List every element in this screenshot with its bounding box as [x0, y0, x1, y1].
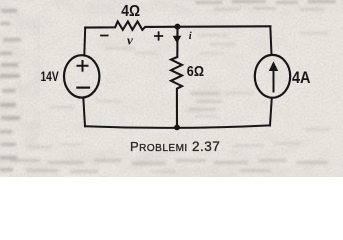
svg-text:v: v: [127, 32, 133, 47]
svg-text:14V: 14V: [41, 68, 60, 84]
svg-text:6Ω: 6Ω: [187, 64, 205, 80]
svg-text:4Ω: 4Ω: [121, 3, 140, 20]
svg-text:i: i: [189, 31, 192, 42]
svg-text:4A: 4A: [292, 68, 311, 87]
